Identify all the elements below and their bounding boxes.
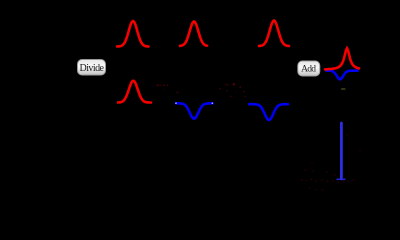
blue delta-function spike (bottom right): [337, 123, 346, 179]
Add operation button: [298, 61, 320, 76]
svg-text:Divide: Divide: [80, 63, 105, 74]
blue inverted gaussian dip D2 (second row): [249, 104, 288, 120]
Divide operation button: [78, 60, 106, 76]
red gaussian peak P1 (top row): [117, 21, 149, 47]
red gaussian peak P2 (top row): [180, 22, 207, 46]
red gaussian peak P3 (top row): [259, 21, 289, 46]
blue shallow dip of combined output plot: [326, 71, 357, 80]
endpoint marker right of dip D1: [212, 102, 214, 104]
faint olive dash label below combined plot: [341, 88, 346, 90]
faint text fringe dots of caption (bottom right): [301, 134, 360, 190]
svg-text:Add: Add: [301, 65, 316, 75]
red sharp peak of combined output plot: [325, 48, 359, 69]
red gaussian peak P4 (second row): [118, 81, 151, 103]
blue inverted gaussian dip D1 (second row): [176, 103, 213, 118]
endpoint marker left of dip D1: [175, 102, 177, 104]
faint text fringe dots near equals sign (row 2, middle): [219, 83, 246, 97]
faint text fringe dots near multiply sign (row 2, left): [152, 84, 178, 93]
